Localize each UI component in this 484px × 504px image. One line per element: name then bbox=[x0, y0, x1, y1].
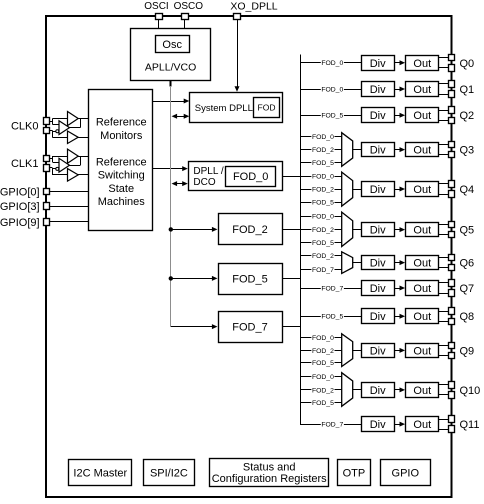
svg-text:FOD_2: FOD_2 bbox=[232, 224, 267, 236]
svg-text:Div: Div bbox=[370, 110, 386, 122]
svg-text:FOD_2: FOD_2 bbox=[312, 187, 334, 194]
svg-text:SPI/I2C: SPI/I2C bbox=[150, 468, 188, 480]
svg-text:Out: Out bbox=[413, 311, 431, 323]
svg-text:Out: Out bbox=[413, 58, 431, 70]
svg-text:OSCI: OSCI bbox=[144, 1, 168, 12]
svg-text:Div: Div bbox=[370, 345, 386, 357]
svg-text:FOD_0: FOD_0 bbox=[321, 86, 343, 93]
svg-text:Configuration Registers: Configuration Registers bbox=[212, 473, 327, 485]
svg-text:Div: Div bbox=[370, 419, 386, 431]
svg-text:FOD_0: FOD_0 bbox=[312, 134, 334, 141]
svg-text:FOD_0: FOD_0 bbox=[312, 374, 334, 381]
svg-text:Out: Out bbox=[413, 84, 431, 96]
svg-text:FOD_0: FOD_0 bbox=[312, 335, 334, 342]
svg-text:FOD_5: FOD_5 bbox=[312, 160, 334, 167]
svg-text:FOD_2: FOD_2 bbox=[312, 348, 334, 355]
svg-text:FOD_5: FOD_5 bbox=[312, 200, 334, 207]
svg-text:Status and: Status and bbox=[243, 462, 296, 474]
svg-text:Q5: Q5 bbox=[460, 225, 475, 237]
svg-text:I2C Master: I2C Master bbox=[73, 468, 127, 480]
svg-text:Out: Out bbox=[413, 345, 431, 357]
svg-text:FOD_0: FOD_0 bbox=[321, 60, 343, 67]
svg-text:OSCO: OSCO bbox=[174, 1, 204, 12]
svg-text:State: State bbox=[108, 183, 134, 195]
svg-text:Out: Out bbox=[413, 258, 431, 270]
svg-text:APLL/VCO: APLL/VCO bbox=[145, 61, 196, 73]
svg-text:FOD_2: FOD_2 bbox=[312, 387, 334, 394]
svg-text:FOD_7: FOD_7 bbox=[232, 322, 267, 334]
svg-text:Div: Div bbox=[370, 311, 386, 323]
svg-text:Q10: Q10 bbox=[460, 385, 481, 397]
svg-text:FOD_7: FOD_7 bbox=[321, 422, 343, 429]
svg-text:Q0: Q0 bbox=[460, 58, 475, 70]
svg-text:Switching: Switching bbox=[98, 170, 145, 182]
svg-text:Machines: Machines bbox=[98, 196, 146, 208]
svg-text:Q7: Q7 bbox=[460, 283, 475, 295]
svg-text:Out: Out bbox=[413, 184, 431, 196]
svg-text:GPIO[9]: GPIO[9] bbox=[0, 217, 40, 229]
svg-text:Div: Div bbox=[370, 145, 386, 157]
svg-text:Q1: Q1 bbox=[460, 84, 475, 96]
svg-text:Out: Out bbox=[413, 385, 431, 397]
svg-text:Q2: Q2 bbox=[460, 110, 475, 122]
svg-text:Out: Out bbox=[413, 419, 431, 431]
svg-text:Out: Out bbox=[413, 283, 431, 295]
svg-text:Div: Div bbox=[370, 258, 386, 270]
svg-text:Div: Div bbox=[370, 58, 386, 70]
svg-text:FOD_0: FOD_0 bbox=[312, 213, 334, 220]
svg-text:FOD_7: FOD_7 bbox=[321, 285, 343, 292]
svg-text:FOD_2: FOD_2 bbox=[312, 147, 334, 154]
svg-text:OTP: OTP bbox=[343, 468, 366, 480]
svg-text:Reference: Reference bbox=[96, 117, 147, 129]
svg-text:FOD: FOD bbox=[258, 102, 276, 112]
svg-text:FOD_0: FOD_0 bbox=[312, 173, 334, 180]
svg-text:Out: Out bbox=[413, 225, 431, 237]
svg-text:Q9: Q9 bbox=[460, 345, 475, 357]
svg-text:Q11: Q11 bbox=[460, 419, 480, 431]
svg-text:XO_DPLL: XO_DPLL bbox=[230, 0, 277, 12]
svg-text:FOD_2: FOD_2 bbox=[312, 253, 334, 260]
svg-text:FOD_0: FOD_0 bbox=[233, 171, 268, 183]
svg-text:FOD_5: FOD_5 bbox=[321, 314, 343, 321]
svg-text:GPIO[0]: GPIO[0] bbox=[0, 186, 40, 198]
svg-text:CLK0: CLK0 bbox=[11, 121, 39, 133]
svg-text:Q6: Q6 bbox=[460, 258, 475, 270]
svg-text:Q8: Q8 bbox=[460, 311, 475, 323]
svg-text:DCO: DCO bbox=[193, 177, 215, 188]
svg-text:Div: Div bbox=[370, 184, 386, 196]
svg-text:Div: Div bbox=[370, 225, 386, 237]
svg-text:Div: Div bbox=[370, 84, 386, 96]
svg-text:Out: Out bbox=[413, 110, 431, 122]
svg-text:FOD_5: FOD_5 bbox=[321, 113, 343, 120]
svg-text:Div: Div bbox=[370, 385, 386, 397]
svg-text:FOD_5: FOD_5 bbox=[232, 274, 267, 286]
svg-text:Div: Div bbox=[370, 283, 386, 295]
svg-text:GPIO[3]: GPIO[3] bbox=[0, 201, 40, 213]
svg-text:GPIO: GPIO bbox=[392, 468, 420, 480]
svg-text:Q3: Q3 bbox=[460, 145, 475, 157]
svg-text:FOD_7: FOD_7 bbox=[312, 267, 334, 274]
svg-text:FOD_2: FOD_2 bbox=[312, 227, 334, 234]
svg-text:Osc: Osc bbox=[162, 39, 182, 51]
svg-text:FOD_5: FOD_5 bbox=[312, 400, 334, 407]
svg-text:System DPLL: System DPLL bbox=[195, 103, 253, 114]
svg-text:FOD_5: FOD_5 bbox=[312, 360, 334, 367]
svg-text:DPLL /: DPLL / bbox=[193, 166, 223, 177]
svg-text:Monitors: Monitors bbox=[100, 130, 143, 142]
svg-text:Out: Out bbox=[413, 145, 431, 157]
svg-text:Reference: Reference bbox=[96, 157, 147, 169]
svg-text:FOD_5: FOD_5 bbox=[312, 240, 334, 247]
svg-text:CLK1: CLK1 bbox=[11, 158, 39, 170]
svg-text:Q4: Q4 bbox=[460, 184, 475, 196]
